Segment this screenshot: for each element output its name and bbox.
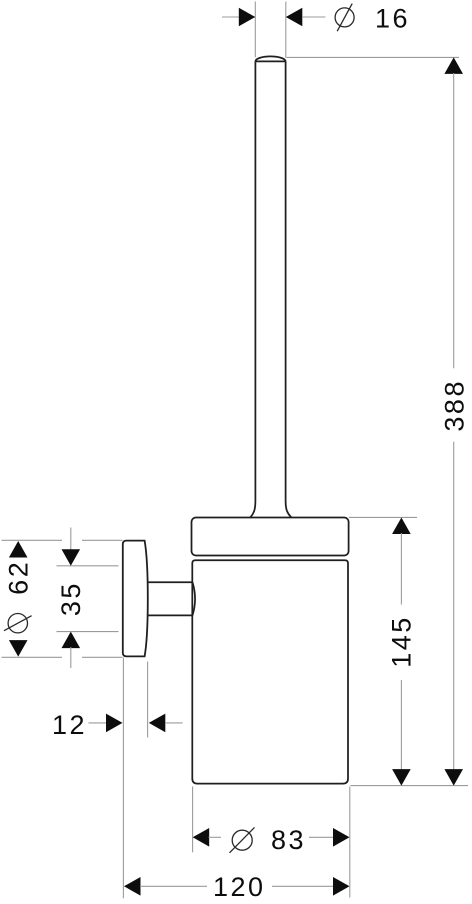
dimension 145 line lower [400,680,402,770]
dimension 120 left arrow [124,877,141,896]
label d62 digits [4,560,34,595]
brush handle rod [255,56,285,501]
dimension 120 right line [272,885,334,887]
dimension 145 top arrow [392,518,411,535]
extension line body right lower [349,787,351,898]
extension line rod right [285,2,287,58]
dimension d16 right tail [302,16,326,18]
extension line 35 bottom [57,631,119,633]
svg-text:12: 12 [52,710,87,740]
dimension 35 upper line [70,528,72,552]
dimension 35 lower line [70,647,72,668]
svg-text:120: 120 [213,872,266,902]
svg-text:16: 16 [375,3,410,33]
extension line plate left lower [122,658,124,899]
extension line lid top right [349,516,417,518]
dimension 388 bottom arrow [444,769,463,786]
mounting arm [148,582,196,615]
dimension d83 left tail [209,836,222,838]
svg-text:83: 83 [271,825,306,855]
dimension 12 leader [89,722,108,724]
dimension 388 line lower [453,442,455,770]
extension line plate bottom [2,656,123,658]
dimension 145 bottom arrow [392,769,411,786]
dimension 120 right arrow [333,877,350,896]
dimension 35 upper arrow [62,549,81,566]
dimension 145 line upper [400,533,402,605]
label d16 diameter symbol [335,4,354,32]
handle flare [250,502,291,518]
dimension 12 left arrow [106,714,123,733]
extension line rod left [254,2,256,58]
extension line plate top [2,539,123,541]
extension line body left lower [192,787,194,853]
dimension 12 right tail [165,722,183,724]
svg-text:388: 388 [439,379,469,432]
extension line rod top right [287,56,460,58]
label 35 [56,581,86,616]
svg-text:62: 62 [4,560,34,595]
svg-text:35: 35 [56,581,86,616]
dimension d62 bottom arrow [9,640,28,657]
dimension d83 left arrow [193,828,210,847]
container body [192,560,348,783]
extension line body bottom [351,785,469,787]
dimension 35 lower arrow [62,632,81,649]
dimension 12 right arrow [149,714,166,733]
lid [192,518,349,556]
extension line 35 top [57,565,119,567]
dimension d62 top arrow [9,541,28,558]
dimension d16 right arrow [286,8,303,27]
dimension d83 right line [309,836,334,838]
label d83 diameter symbol [230,827,255,852]
label 388 [439,379,469,432]
dimension d83 right arrow [333,828,350,847]
wall plate [123,541,148,657]
dimension 388 top arrow [444,57,463,74]
extension line plate right lower [147,662,149,738]
dimension d16 left tail [222,16,239,18]
label d62 diameter symbol [4,614,32,633]
svg-text:145: 145 [387,615,417,668]
dimension 120 left line [140,885,207,887]
label 145 [387,615,417,668]
dimension 388 line upper [453,73,455,368]
dimension d16 left arrow [239,8,256,27]
